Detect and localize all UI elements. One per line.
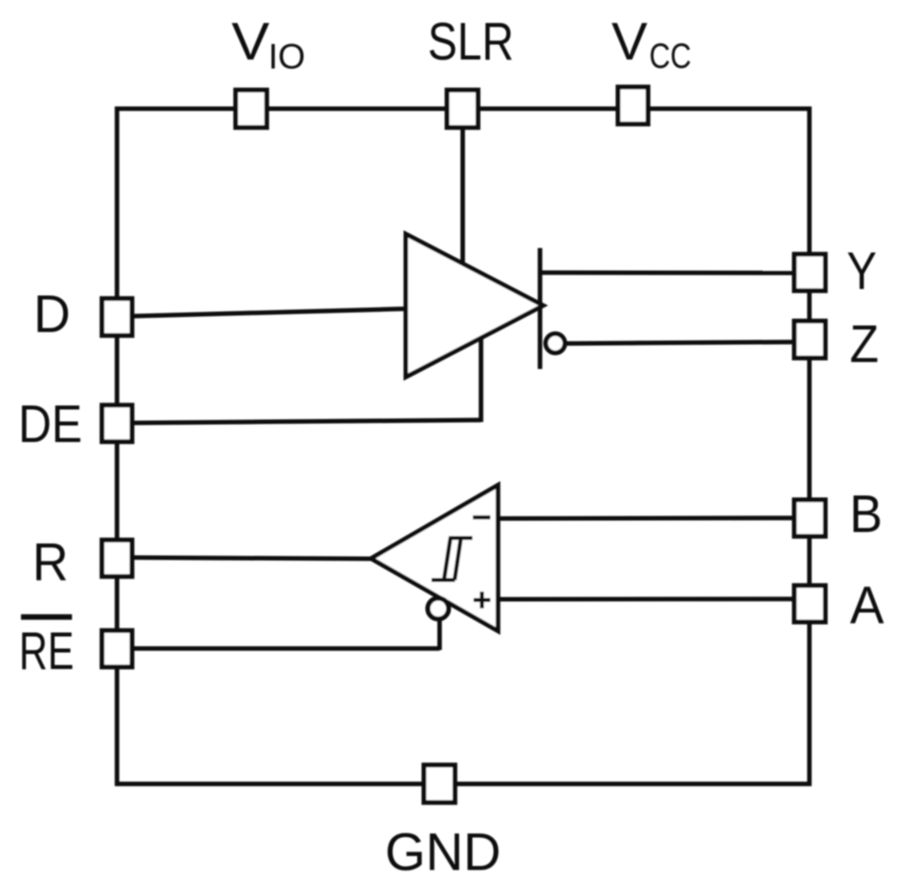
wire DE horizontal: [120, 420, 481, 423]
chip boundary box: [117, 109, 809, 784]
pin R terminal: [102, 540, 132, 577]
wire driver to pin Y: [540, 270, 795, 275]
pin RE terminal: [102, 631, 132, 668]
pin VCC terminal: [618, 87, 648, 124]
wire driver bubble to pin Z: [565, 342, 795, 344]
wire SLR to driver: [460, 112, 465, 262]
receiver hysteresis symbol: [432, 538, 473, 580]
pin D terminal: [102, 299, 132, 336]
wire D to driver input: [120, 309, 406, 317]
pin Z terminal: [794, 321, 825, 358]
overline of RE label: [21, 614, 72, 620]
pin SLR terminal: [447, 90, 478, 128]
driver inverted output bubble: [546, 334, 565, 353]
svg-text:GND: GND: [385, 823, 501, 882]
wire RE horizontal: [120, 646, 440, 651]
svg-text:A: A: [850, 576, 885, 635]
pin A terminal: [794, 586, 825, 623]
wire DE vertical to driver enable: [479, 338, 484, 422]
pin GND terminal: [424, 765, 455, 803]
svg-text:V: V: [612, 13, 649, 72]
svg-text:V: V: [232, 13, 271, 72]
svg-text:CC: CC: [649, 37, 691, 76]
driver triangle U1: [406, 234, 543, 377]
pin Y terminal: [794, 254, 825, 291]
pin B terminal: [794, 500, 825, 537]
svg-text:DE: DE: [18, 395, 82, 454]
svg-text:RE: RE: [19, 622, 74, 681]
receiver noninverting input plus sign: [474, 592, 491, 609]
pin DE terminal: [102, 405, 132, 442]
receiver triangle U2: [371, 485, 498, 631]
receiver enable bubble: [428, 598, 449, 619]
svg-text:IO: IO: [268, 38, 305, 77]
svg-text:B: B: [850, 485, 883, 544]
wire RE vertical to receiver enable bubble: [437, 619, 442, 650]
driver output stage bar: [538, 248, 543, 369]
pin VIO terminal: [236, 90, 267, 128]
receiver inverting input minus sign: [473, 515, 490, 519]
svg-text:SLR: SLR: [428, 13, 514, 72]
svg-text:D: D: [34, 285, 71, 344]
wire pin B to receiver inverting input: [497, 516, 795, 521]
wire R to receiver output: [120, 558, 372, 559]
svg-text:Y: Y: [847, 242, 877, 301]
svg-text:R: R: [32, 533, 68, 592]
svg-text:Z: Z: [850, 315, 879, 374]
wire pin A to receiver noninverting input: [497, 597, 795, 602]
